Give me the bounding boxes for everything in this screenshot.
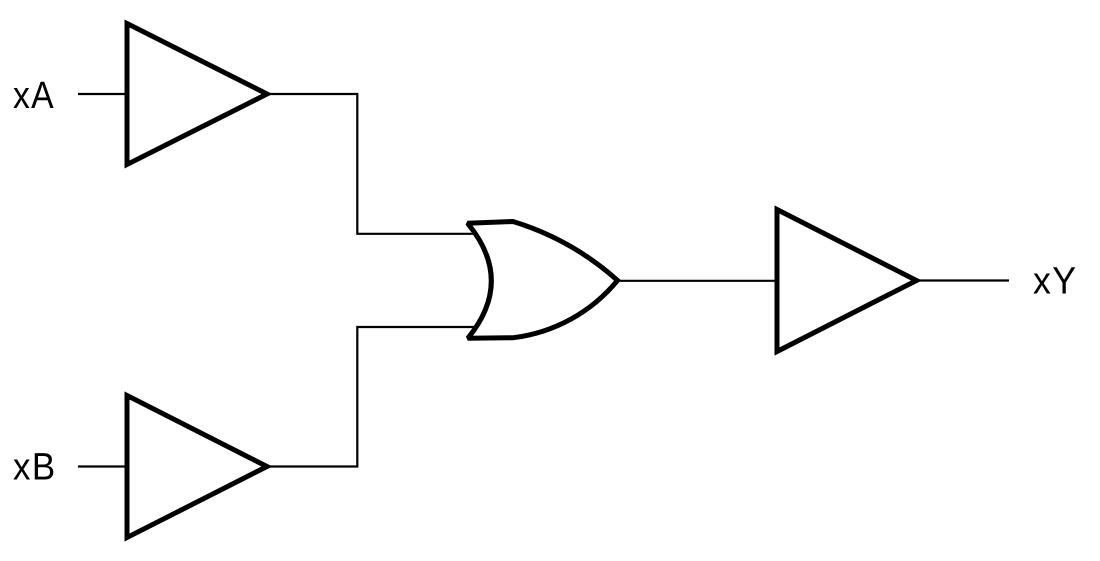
wire xY output stub (917, 279, 1010, 281)
wire U3 output to buffer U4 input (619, 280, 777, 282)
wire xB input stub (78, 465, 130, 467)
buffer U1 (input buffer for xA) (127, 24, 267, 165)
svg-text:xB: xB (13, 447, 57, 489)
buffer U2 (input buffer for xB) (127, 396, 267, 538)
wire U1 output to OR gate input 1 (267, 94, 482, 234)
wire U2 output to OR gate input 2 (267, 327, 482, 467)
svg-text:xY: xY (1033, 261, 1078, 303)
buffer U4 (output buffer) (777, 210, 917, 352)
wire xA input stub (78, 93, 130, 95)
svg-text:xA: xA (13, 75, 55, 117)
or-gate U3 (468, 222, 618, 339)
